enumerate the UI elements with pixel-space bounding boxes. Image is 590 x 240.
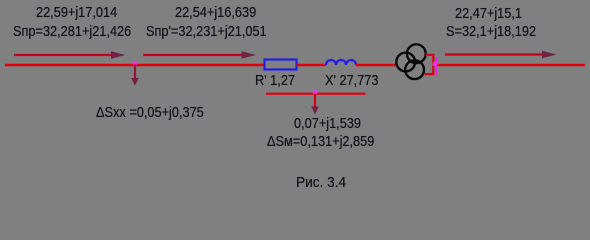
wire output line (438, 64, 586, 66)
resistor R' (265, 60, 297, 70)
transformer T (three-winding, three circles) (396, 44, 425, 79)
wire inductor to transformer (356, 64, 398, 66)
caption Рис. 3.4 (296, 175, 346, 190)
arrow ΔSм down (311, 94, 319, 115)
label ΔSм=0,131+j2,859 (267, 134, 374, 149)
label flow value 22,54+j16,639 (175, 5, 256, 20)
node transformer output junction (magenta) (433, 57, 438, 75)
wire main line left section (5, 64, 265, 66)
label resistor value R' 1,27 (255, 73, 295, 88)
label Sпр'=32,231+j21,051 (146, 24, 267, 39)
wire bracket at transformer secondary (425, 55, 434, 74)
inductor X' (326, 60, 356, 65)
label Sпр=32,281+j21,426 (13, 24, 131, 39)
label S=32,1+j18,192 (446, 24, 536, 39)
label flow value 22,47+j15,1 (455, 6, 522, 21)
wire between resistor and inductor (297, 64, 327, 66)
label inductor value X' 27,773 (325, 73, 378, 88)
label flow value 22,59+j17,014 (36, 5, 117, 20)
wire branch under R' and X' (266, 93, 366, 95)
flow arrow Sпр' (middle) (143, 51, 256, 59)
label 0,07+j1,539 (294, 116, 361, 131)
flow arrow Sпр (left) (14, 51, 126, 59)
label ΔSxx=0,05+j0,375 (96, 105, 204, 120)
arrow ΔSxx down (131, 65, 139, 86)
node junction dot on main line (no-load tap) (133, 61, 137, 65)
flow arrow S (output) (445, 51, 557, 59)
node junction dot on branch (313, 90, 317, 94)
